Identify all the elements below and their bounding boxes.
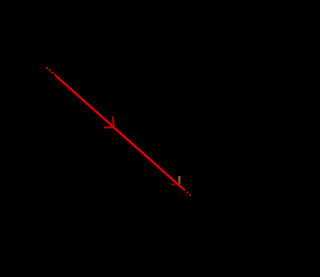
node A: mid arrowhead horizontal barb xyxy=(104,126,115,128)
black canvas with red drag/vector arrow xyxy=(0,0,213,277)
node A: mid arrowhead small top hook xyxy=(112,116,114,117)
wire: main solid red line segment xyxy=(56,76,184,190)
wire: dotted end of red line xyxy=(184,189,191,195)
node B: end arrowhead horizontal barb (dark red) xyxy=(171,183,176,185)
wire: dotted start of red line xyxy=(46,67,56,76)
node B: end arrowhead vertical barb (orange tick) xyxy=(178,176,180,184)
node A: mid arrowhead vertical barb xyxy=(112,117,115,128)
